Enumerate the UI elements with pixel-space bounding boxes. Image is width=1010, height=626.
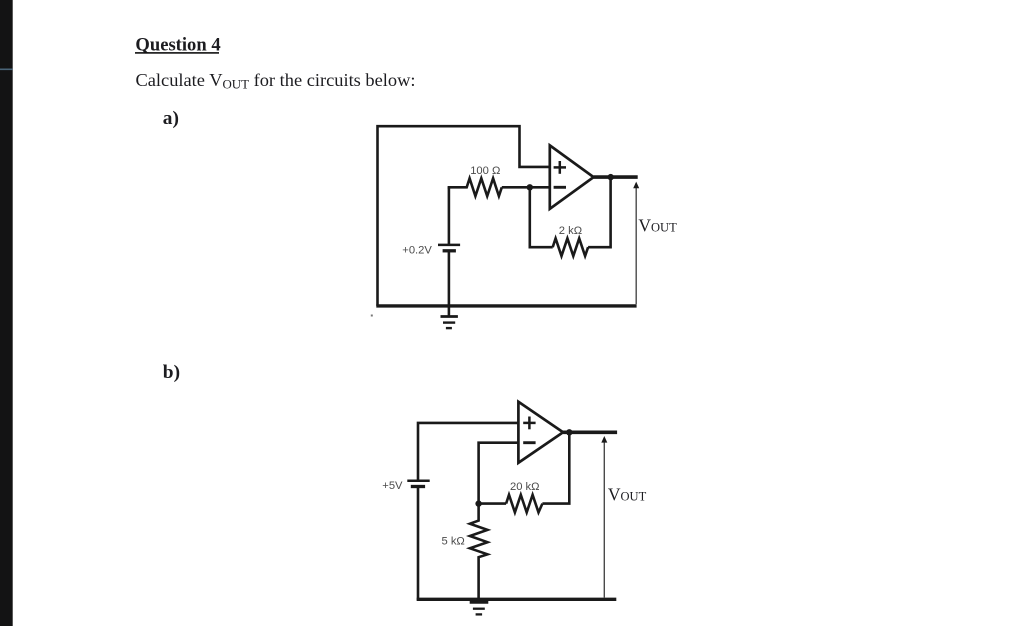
node: feedback junction b	[475, 500, 481, 506]
op-amp U2	[518, 402, 563, 463]
node: output junction a	[608, 174, 614, 180]
wire: feedback left leg a	[530, 187, 553, 247]
wire: top rail a (non-inverting feed from output loop)	[378, 126, 550, 306]
wire: non-inverting feed b (+5V to op-amp)	[418, 423, 518, 480]
resistor R3 20 kohm (feedback)	[506, 495, 542, 513]
wire: 20k left lead	[479, 502, 507, 505]
net label VOUT b	[608, 485, 647, 505]
wire: output a	[594, 175, 638, 179]
battery V1 +0.2V	[438, 187, 460, 316]
VOUT arrow b	[601, 436, 607, 598]
op-amp U1	[550, 145, 594, 209]
net label VOUT a	[638, 216, 677, 236]
ground a	[441, 317, 458, 329]
wire: feedback right leg a	[588, 177, 611, 247]
wire: feedback right leg b	[542, 432, 569, 503]
resistor R1 100 ohm	[448, 178, 502, 196]
node: inverting input junction a	[527, 184, 533, 190]
svg-text:20 kΩ: 20 kΩ	[510, 481, 540, 493]
body text: Calculate VOUT for the circuits below:	[136, 70, 416, 92]
svg-text:5 kΩ: 5 kΩ	[442, 535, 465, 547]
title: Question 4	[135, 34, 221, 55]
label b)	[163, 362, 180, 383]
svg-text:2 kΩ: 2 kΩ	[559, 225, 582, 237]
value label 5 kohm	[442, 535, 465, 547]
VOUT arrow a	[633, 182, 639, 305]
svg-text:+5V: +5V	[382, 480, 403, 492]
ground b	[470, 602, 489, 614]
wire: bottom ground rail a	[376, 304, 636, 307]
wire: inverting input b	[479, 443, 519, 504]
value label +5V	[382, 480, 403, 492]
wire: bottom ground rail b	[417, 598, 617, 601]
resistor R2 2 kohm (feedback)	[553, 238, 588, 256]
svg-text:Calculate VOUT for the circuit: Calculate VOUT for the circuits below:	[136, 70, 416, 92]
value label 20 kohm	[510, 481, 540, 493]
battery V2 +5V	[407, 481, 429, 601]
wire: inverting input a	[502, 186, 550, 189]
value label 2 kohm	[559, 225, 582, 237]
value label +0.2V	[402, 245, 432, 257]
svg-text:+0.2V: +0.2V	[402, 245, 432, 257]
svg-text:a): a)	[163, 108, 179, 129]
resistor R4 5 kohm	[470, 504, 488, 601]
svg-text:b): b)	[163, 362, 180, 383]
node: output junction b	[566, 429, 572, 435]
label a)	[163, 108, 179, 129]
wire: output b	[563, 430, 617, 434]
svg-text:100 Ω: 100 Ω	[470, 165, 500, 177]
value label 100 ohm	[470, 165, 500, 177]
